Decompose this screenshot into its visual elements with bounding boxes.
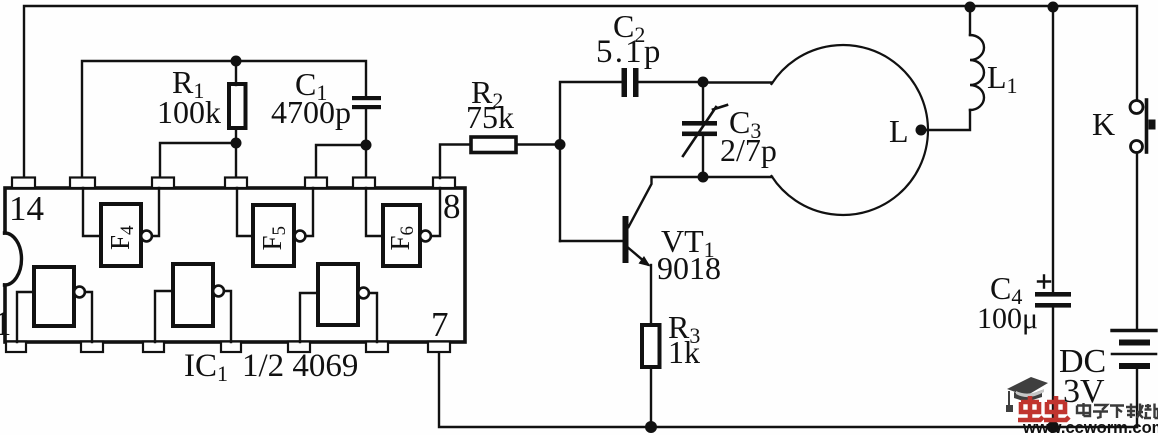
- label VT1: [661, 223, 715, 262]
- svg-text:4700p: 4700p: [271, 94, 351, 130]
- svg-text:2/7p: 2/7p: [720, 132, 777, 168]
- wire bottom rail: [439, 353, 1137, 427]
- watermark graduation cap: [1006, 377, 1048, 412]
- label 2/7p: [720, 132, 777, 168]
- label DC: [1059, 343, 1106, 380]
- inverter G1: [34, 267, 74, 326]
- battery DC 3V: [1112, 331, 1156, 367]
- wire G1 input from pin1: [17, 292, 34, 342]
- label L1: [987, 59, 1018, 98]
- capacitor C3 (variable): [682, 121, 717, 136]
- node C1 bottom junction: [361, 140, 372, 151]
- svg-text:7: 7: [431, 305, 449, 344]
- svg-text:100μ: 100μ: [977, 302, 1038, 335]
- pin top4: [225, 178, 247, 189]
- label IC1 1/2 4069: [184, 348, 358, 386]
- node base junction: [555, 139, 566, 150]
- wire C3 top lead: [702, 82, 704, 120]
- svg-text:L: L: [889, 113, 909, 149]
- svg-text:9018: 9018: [657, 250, 721, 286]
- wire F4 input from pin2: [83, 188, 101, 236]
- pin bottom4: [221, 342, 241, 353]
- svg-text:8: 8: [443, 187, 461, 226]
- inverter G2: [173, 264, 213, 326]
- wire F5 input from pin4: [237, 188, 253, 236]
- label F4: [105, 225, 138, 250]
- wire R1 node to pin3: [160, 143, 236, 178]
- resistor R2: [471, 137, 516, 153]
- pin bottom5: [288, 342, 310, 353]
- svg-text:1: 1: [0, 304, 12, 343]
- label 1k: [668, 334, 700, 370]
- svg-text:1k: 1k: [668, 334, 700, 370]
- pin 7 (bottom): [428, 342, 450, 353]
- watermark url: [1022, 419, 1158, 435]
- label 75k: [466, 99, 514, 135]
- label pin 8: [443, 187, 461, 226]
- wire C4 column top: [1052, 6, 1054, 292]
- node C4 rail junction: [1048, 2, 1059, 13]
- label 5.1p: [596, 34, 663, 70]
- wire C3 bottom lead: [702, 134, 704, 177]
- wire R1 top lead: [235, 61, 237, 85]
- pin top6: [353, 178, 375, 189]
- wire F6 input from pin6: [366, 188, 383, 236]
- wire G3 output to pin b6: [369, 293, 377, 342]
- bubble G2: [213, 286, 224, 297]
- wire C4 bottom: [1052, 307, 1054, 427]
- label F5: [257, 226, 290, 251]
- svg-text:75k: 75k: [466, 99, 514, 135]
- label F6: [385, 226, 418, 251]
- label K: [1092, 106, 1115, 142]
- node C4 bottom: [1047, 421, 1059, 433]
- inductor L1: [970, 35, 984, 110]
- pin top2: [70, 178, 95, 189]
- wire L tap to coil: [921, 110, 970, 130]
- inverter F5: [253, 205, 294, 266]
- watermark site name: [1077, 403, 1158, 418]
- arrow of C3: [683, 105, 727, 156]
- wire C2 to C3 top node: [639, 81, 704, 83]
- label pin 1: [0, 304, 12, 343]
- IC1 package outline: [5, 188, 465, 342]
- resistor R3: [642, 325, 660, 367]
- pin top5: [305, 178, 327, 189]
- inverter F6: [383, 205, 420, 266]
- wire C3 bottom node to tank circle: [703, 176, 772, 178]
- wire switch to battery: [1136, 153, 1138, 331]
- label C1: [295, 66, 327, 105]
- label R2: [471, 74, 503, 113]
- label pin 14: [9, 189, 44, 228]
- wire G2 input from pin b3: [155, 291, 173, 342]
- wire C1 node to pin5: [316, 145, 366, 178]
- svg-text:5.1p: 5.1p: [596, 34, 663, 70]
- node L tap: [916, 125, 927, 136]
- pin 14 (top): [12, 178, 35, 189]
- wire battery to ground rail: [1136, 366, 1138, 427]
- IC notch: [0, 235, 7, 283]
- label C4: [990, 270, 1022, 309]
- wire collector lead: [629, 177, 704, 227]
- node C3 bottom: [698, 172, 709, 183]
- label 100u: [977, 302, 1038, 335]
- svg-text:K: K: [1092, 106, 1115, 142]
- wire emitter to R3: [650, 265, 652, 325]
- label R3: [668, 309, 700, 348]
- pin bottom6: [366, 342, 388, 353]
- inverter G3: [318, 264, 358, 325]
- transistor VT1: [560, 216, 651, 267]
- wire G2 output to pin b4: [224, 291, 231, 342]
- wire F4 output to pin3: [152, 188, 159, 236]
- label L: [889, 113, 909, 149]
- tank circle: [772, 45, 928, 215]
- bubble G1: [74, 287, 85, 298]
- label R1: [172, 64, 204, 103]
- pin bottom2: [81, 342, 103, 353]
- capacitor C2: [622, 68, 639, 97]
- node R3 bottom: [645, 421, 657, 433]
- label pin 7: [431, 305, 449, 344]
- label C4 plus: [1038, 276, 1050, 288]
- svg-text:100k: 100k: [157, 94, 221, 130]
- bubble F6: [420, 231, 431, 242]
- wire base node to base: [559, 145, 561, 242]
- pin 1 (bottom): [6, 342, 26, 353]
- capacitor C4: [1035, 292, 1071, 308]
- node coil rail junction: [965, 2, 976, 13]
- label 3V: [1063, 373, 1105, 410]
- wire R1 bottom lead to pin4: [235, 128, 237, 178]
- pin top3: [152, 178, 174, 189]
- label C2: [613, 8, 645, 47]
- pin bottom3: [143, 342, 164, 353]
- switch K: [1130, 100, 1156, 153]
- wire base node riser: [560, 82, 622, 145]
- wire pin8 riser to R2: [440, 145, 471, 179]
- wire pin2 to R1/C1 top line: [82, 61, 366, 178]
- inverter F4: [101, 204, 141, 266]
- bubble G3: [358, 288, 369, 299]
- watermark chongchong red: [1018, 396, 1069, 420]
- label 100k: [157, 94, 221, 130]
- wire C1 bottom lead to pin6: [365, 109, 367, 178]
- capacitor C1: [352, 96, 381, 109]
- node R1 bottom junction: [231, 138, 242, 149]
- bubble F4: [141, 231, 152, 242]
- wire G1 output to pin b2: [85, 292, 92, 342]
- node C3 top: [698, 77, 709, 88]
- pin 8 (top): [433, 178, 455, 189]
- svg-text:www.ccworm.com: www.ccworm.com: [1022, 419, 1158, 435]
- wire G3 input from pin b5: [300, 293, 318, 342]
- wire F5 output to pin5: [306, 188, 314, 236]
- wire F6 output to pin8riser: [431, 188, 440, 236]
- label 9018: [657, 250, 721, 286]
- wire R3 to ground rail: [650, 367, 652, 427]
- node R1 top junction: [231, 56, 242, 67]
- bubble F5: [295, 231, 306, 242]
- resistor R1: [229, 84, 246, 128]
- wire C3 top node to tank circle: [703, 81, 772, 83]
- svg-text:14: 14: [9, 189, 44, 228]
- label C3: [729, 104, 761, 143]
- svg-text:IC11/2 4069: IC11/2 4069: [184, 348, 358, 386]
- wire top supply rail: [24, 6, 1137, 180]
- wire coil top to rail: [969, 6, 971, 35]
- label 4700p: [271, 94, 351, 130]
- wire R2 to base node: [516, 143, 560, 145]
